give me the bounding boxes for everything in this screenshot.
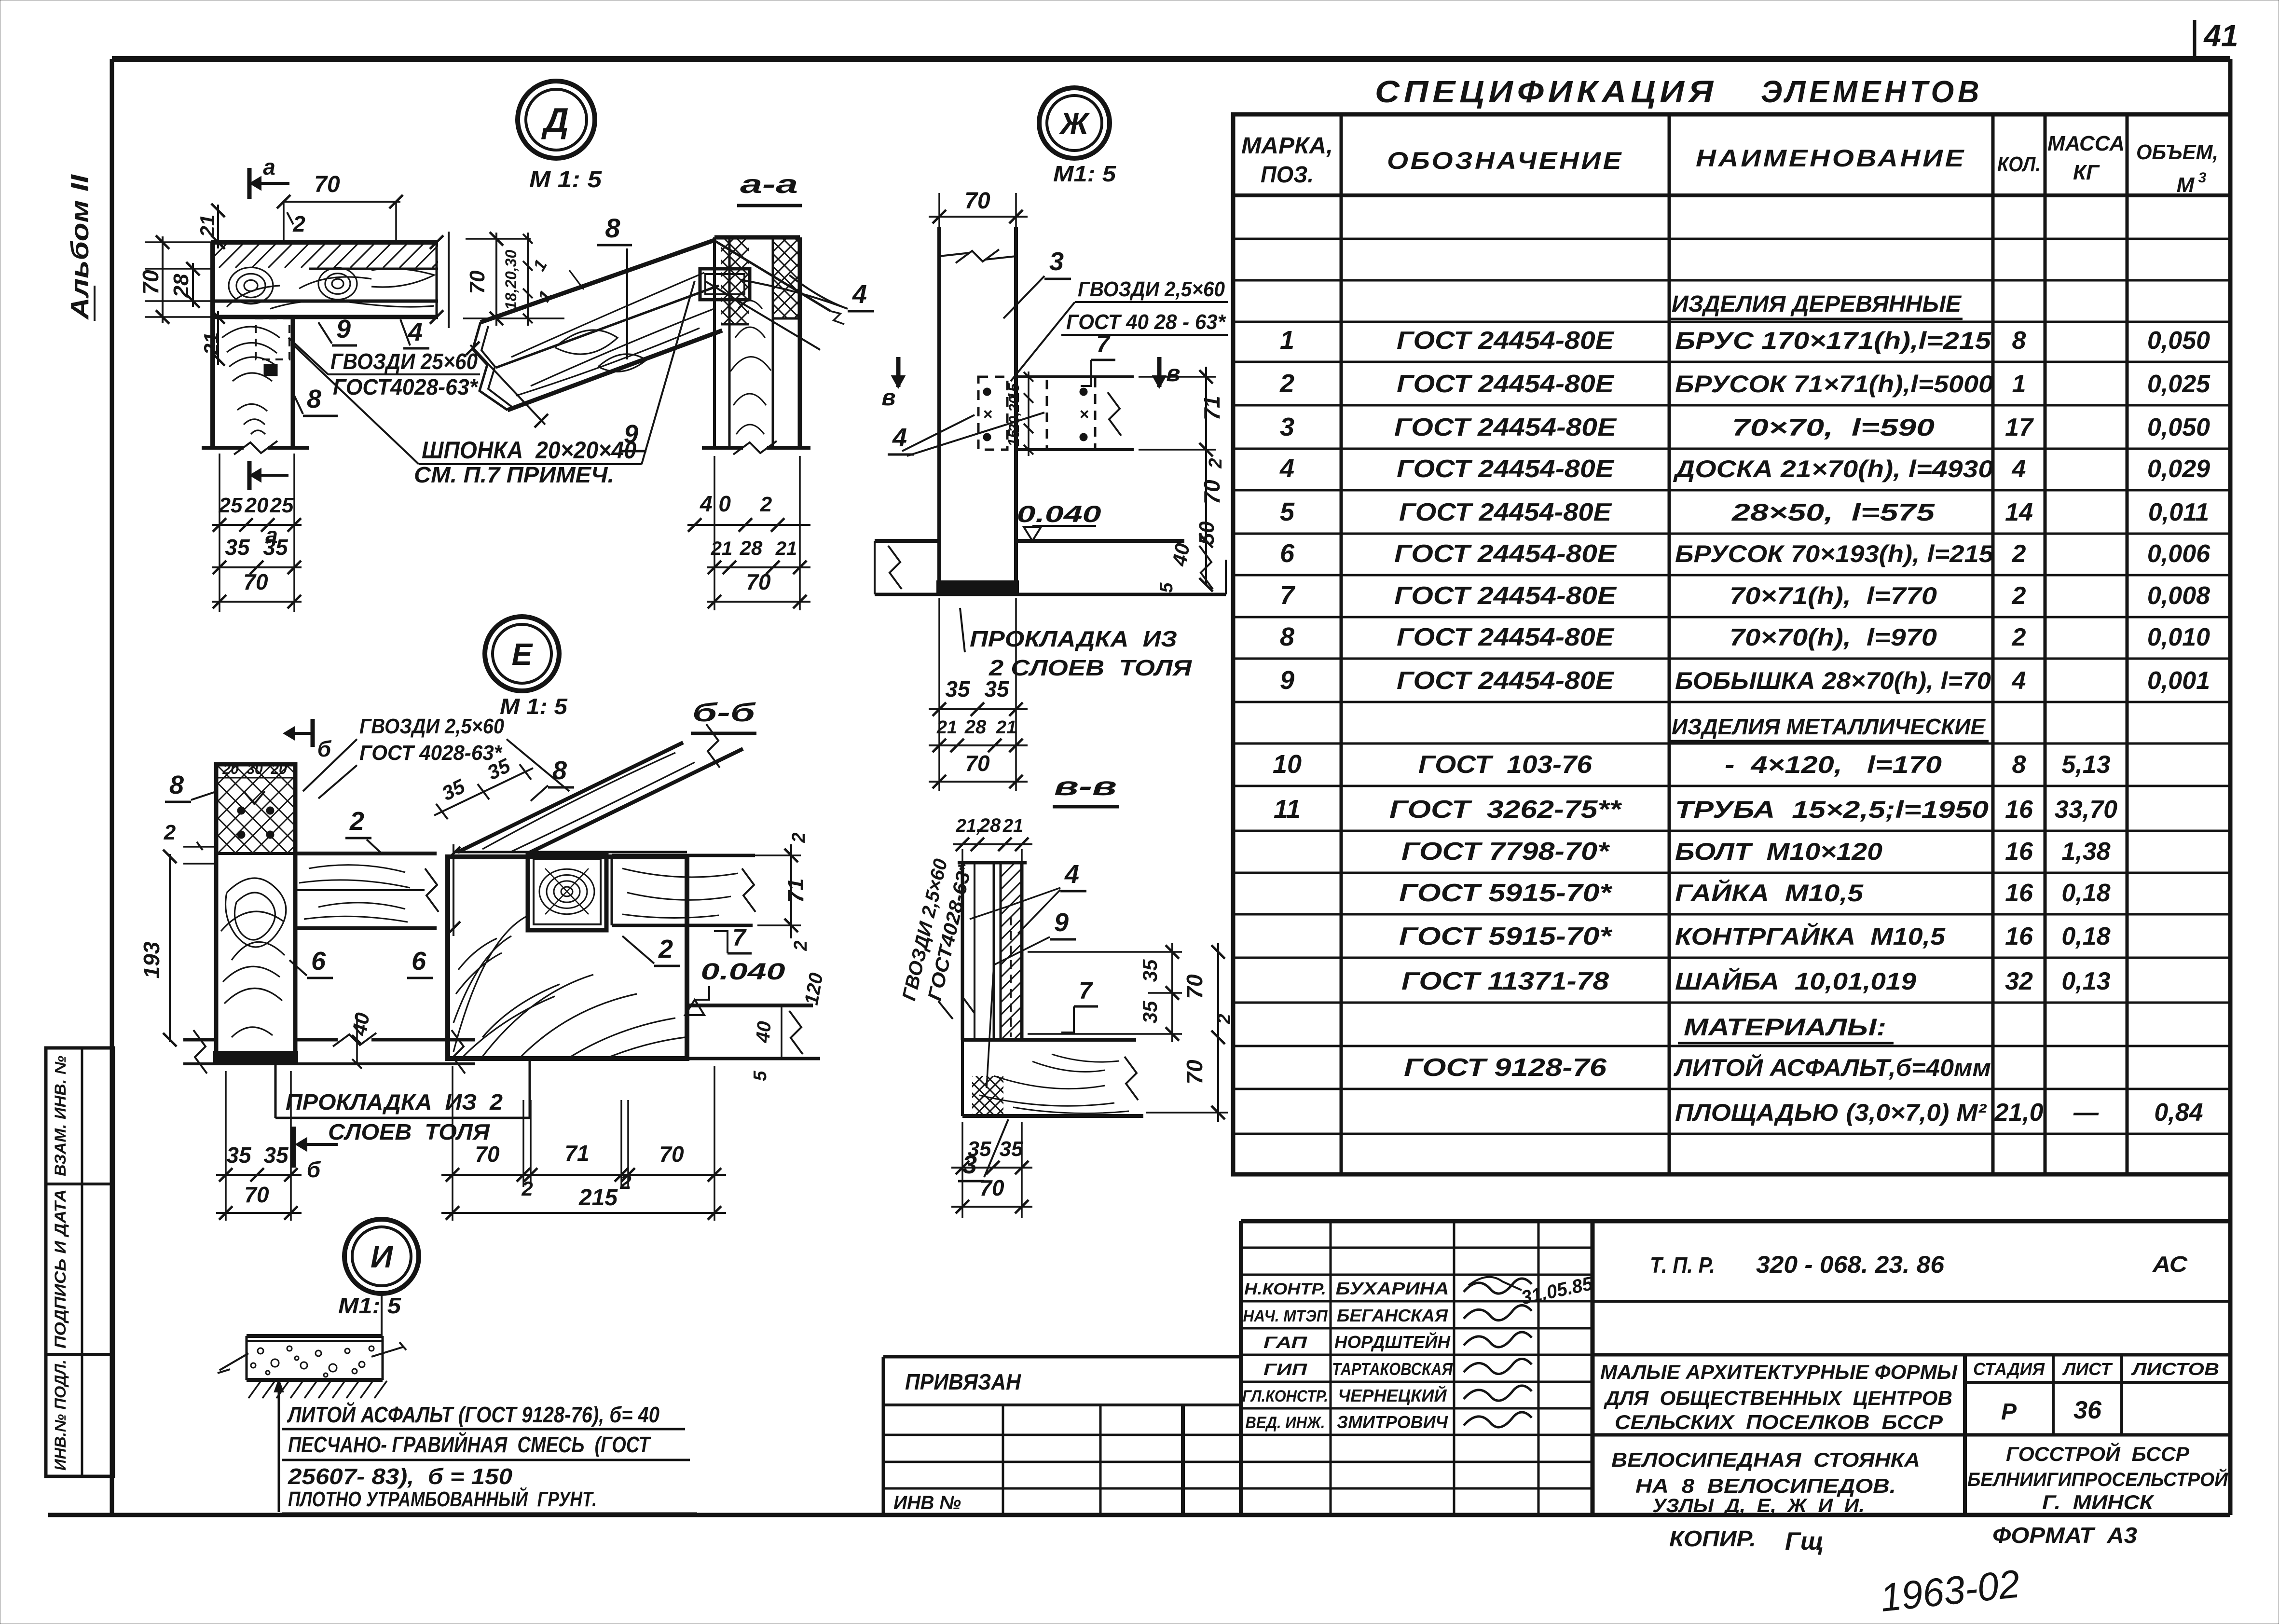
svg-text:БОБЫШКА 28×70(h), l=70: БОБЫШКА 28×70(h), l=70: [1675, 667, 1991, 694]
svg-text:71: 71: [564, 1141, 589, 1166]
svg-text:3: 3: [1049, 247, 1064, 276]
svg-text:0,050: 0,050: [2147, 327, 2210, 355]
svg-text:БРУСОК 71×71(h),l=5000: БРУСОК 71×71(h),l=5000: [1675, 371, 1993, 398]
svg-text:70×70(h), l=970: 70×70(h), l=970: [1730, 624, 1937, 651]
svg-text:14: 14: [2005, 498, 2033, 526]
svg-text:21: 21: [996, 717, 1016, 738]
svg-text:0,050: 0,050: [2147, 413, 2210, 441]
svg-text:2: 2: [521, 1177, 533, 1200]
svg-text:ГОСТ 103-76: ГОСТ 103-76: [1418, 751, 1593, 779]
svg-text:35: 35: [984, 676, 1010, 702]
svg-text:4: 4: [852, 280, 867, 309]
svg-text:ОБЪЕМ,: ОБЪЕМ,: [2136, 140, 2218, 164]
svg-text:70×71(h), l=770: 70×71(h), l=770: [1730, 582, 1937, 609]
svg-text:7: 7: [732, 924, 747, 951]
svg-text:71: 71: [1199, 396, 1224, 420]
svg-text:7: 7: [1096, 330, 1111, 358]
svg-text:0,006: 0,006: [2147, 540, 2210, 568]
svg-text:ГОСТ 40 28 - 63*: ГОСТ 40 28 - 63*: [1066, 310, 1226, 334]
svg-text:25607- 83), б = 150: 25607- 83), б = 150: [288, 1464, 513, 1489]
svg-text:2: 2: [1214, 1014, 1235, 1024]
svg-text:КГ: КГ: [2073, 161, 2100, 184]
svg-text:70: 70: [314, 172, 340, 197]
svg-text:М 1: 5: М 1: 5: [500, 694, 568, 719]
svg-text:ГОСТ 24454-80Е: ГОСТ 24454-80Е: [1397, 623, 1614, 651]
svg-text:ИНВ №: ИНВ №: [893, 1492, 961, 1514]
svg-text:70: 70: [1182, 1060, 1207, 1085]
svg-text:20: 20: [270, 761, 287, 777]
svg-text:0,84: 0,84: [2154, 1099, 2203, 1127]
svg-text:70: 70: [138, 270, 163, 295]
svg-text:28×50, l=575: 28×50, l=575: [1731, 499, 1936, 526]
svg-text:2 СЛОЕВ ТОЛЯ: 2 СЛОЕВ ТОЛЯ: [988, 655, 1193, 680]
svg-text:2: 2: [292, 211, 305, 236]
svg-text:25: 25: [219, 494, 243, 517]
svg-text:ГОСТ 4028-63*: ГОСТ 4028-63*: [359, 741, 503, 765]
svg-text:БЕЛНИИГИПРОСЕЛЬСТРОЙ: БЕЛНИИГИПРОСЕЛЬСТРОЙ: [1967, 1468, 2228, 1490]
svg-text:ГЛ.КОНСТР.: ГЛ.КОНСТР.: [1242, 1387, 1328, 1405]
svg-text:ЛИТОЙ АСФАЛЬТ,б=40мм: ЛИТОЙ АСФАЛЬТ,б=40мм: [1674, 1054, 1991, 1081]
svg-text:2: 2: [2012, 540, 2026, 568]
svg-text:МАТЕРИАЛЫ:: МАТЕРИАЛЫ:: [1684, 1014, 1886, 1041]
svg-text:0,13: 0,13: [2061, 967, 2110, 995]
svg-text:0,025: 0,025: [2147, 370, 2210, 398]
svg-text:4: 4: [2012, 455, 2026, 483]
svg-text:Гщ: Гщ: [1785, 1528, 1824, 1555]
svg-text:8: 8: [2012, 327, 2026, 355]
svg-text:35: 35: [968, 1137, 991, 1161]
svg-text:- 4×120, l=170: - 4×120, l=170: [1725, 751, 1942, 778]
svg-text:2: 2: [164, 821, 176, 844]
svg-text:7: 7: [1079, 977, 1093, 1004]
svg-text:МАССА: МАССА: [2047, 132, 2125, 155]
svg-text:28: 28: [979, 815, 1001, 836]
svg-text:71: 71: [783, 878, 808, 903]
svg-text:40: 40: [752, 1020, 775, 1044]
svg-text:КОЛ.: КОЛ.: [1997, 152, 2041, 176]
svg-text:4: 4: [1279, 454, 1294, 483]
svg-text:ПОЗ.: ПОЗ.: [1261, 162, 1314, 188]
svg-text:БРУС 170×171(h),l=215: БРУС 170×171(h),l=215: [1675, 327, 1991, 354]
svg-text:16: 16: [2005, 922, 2033, 950]
svg-text:41: 41: [2203, 18, 2238, 53]
svg-text:21: 21: [196, 215, 219, 238]
svg-text:СМ. П.7 ПРИМЕЧ.: СМ. П.7 ПРИМЕЧ.: [414, 462, 614, 487]
svg-text:ГОСТ 24454-80Е: ГОСТ 24454-80Е: [1394, 540, 1617, 568]
svg-text:70: 70: [964, 188, 990, 214]
svg-text:70: 70: [475, 1142, 500, 1167]
svg-text:21: 21: [936, 717, 957, 738]
svg-text:1: 1: [1280, 326, 1294, 355]
svg-text:35: 35: [226, 1142, 252, 1168]
svg-text:ОБОЗНАЧЕНИЕ: ОБОЗНАЧЕНИЕ: [1387, 147, 1623, 174]
svg-text:ЛИСТ: ЛИСТ: [2062, 1359, 2113, 1379]
svg-text:М 1: 5: М 1: 5: [529, 167, 602, 193]
svg-text:БУХАРИНА: БУХАРИНА: [1336, 1279, 1449, 1298]
svg-text:8: 8: [552, 756, 567, 785]
svg-text:8: 8: [2012, 751, 2026, 779]
svg-text:Н.КОНТР.: Н.КОНТР.: [1244, 1280, 1326, 1298]
svg-text:4: 4: [892, 423, 907, 452]
svg-text:70: 70: [965, 751, 990, 776]
svg-text:35: 35: [225, 535, 250, 560]
svg-text:193: 193: [139, 941, 164, 978]
svg-text:ПРОКЛАДКА ИЗ 2: ПРОКЛАДКА ИЗ 2: [286, 1089, 503, 1115]
svg-text:3: 3: [2198, 170, 2207, 186]
svg-text:ГОСТ 24454-80Е: ГОСТ 24454-80Е: [1397, 327, 1614, 355]
svg-text:70: 70: [746, 569, 771, 594]
svg-text:—: —: [2073, 1099, 2099, 1127]
svg-text:70: 70: [659, 1142, 684, 1167]
svg-text:ГВОЗДИ 25×60: ГВОЗДИ 25×60: [330, 349, 478, 374]
svg-text:35: 35: [945, 676, 971, 702]
svg-text:4: 4: [408, 317, 423, 346]
svg-text:5: 5: [1156, 582, 1177, 593]
svg-text:0.040: 0.040: [1017, 502, 1101, 527]
svg-text:НАЧ. МТЭП: НАЧ. МТЭП: [1243, 1307, 1328, 1325]
svg-text:10: 10: [1273, 750, 1302, 779]
svg-text:2: 2: [349, 807, 364, 836]
svg-text:ГОСТ 3262-75**: ГОСТ 3262-75**: [1389, 796, 1622, 824]
svg-text:21: 21: [711, 538, 733, 559]
svg-text:35: 35: [263, 1142, 289, 1168]
svg-text:4: 4: [1064, 860, 1079, 889]
svg-text:ЛИТОЙ АСФАЛЬТ (ГОСТ 9128-76),: ЛИТОЙ АСФАЛЬТ (ГОСТ 9128-76), б= 40: [287, 1402, 659, 1427]
svg-text:Г. МИНСК: Г. МИНСК: [2042, 1491, 2155, 1514]
svg-text:7: 7: [1280, 581, 1296, 610]
svg-text:ПЕСЧАНО- ГРАВИЙНАЯ СМЕСЬ (ГО: ПЕСЧАНО- ГРАВИЙНАЯ СМЕСЬ (ГОСТ: [288, 1432, 651, 1457]
svg-text:8: 8: [1280, 622, 1294, 651]
svg-text:35: 35: [1139, 959, 1161, 982]
svg-text:ЧЕРНЕЦКИЙ: ЧЕРНЕЦКИЙ: [1338, 1385, 1447, 1405]
svg-text:18,20,30: 18,20,30: [502, 250, 520, 310]
svg-text:2: 2: [1279, 369, 1294, 398]
svg-text:2: 2: [619, 1170, 631, 1193]
svg-text:ГВОЗДИ 2,5×60: ГВОЗДИ 2,5×60: [359, 715, 504, 738]
svg-text:33,70: 33,70: [2055, 796, 2117, 824]
svg-text:70: 70: [244, 1182, 269, 1207]
svg-text:ГИП: ГИП: [1263, 1361, 1308, 1379]
svg-text:МАРКА,: МАРКА,: [1241, 133, 1333, 159]
svg-text:21,0: 21,0: [1994, 1099, 2043, 1127]
svg-text:4: 4: [2012, 667, 2026, 695]
svg-text:ИНВ.№ ПОДЛ.: ИНВ.№ ПОДЛ.: [52, 1360, 69, 1471]
svg-text:ПЛОТНО УТРАМБОВАННЫЙ ГРУНТ.: ПЛОТНО УТРАМБОВАННЫЙ ГРУНТ.: [288, 1486, 597, 1511]
svg-text:ГОСТ 9128-76: ГОСТ 9128-76: [1404, 1054, 1607, 1082]
svg-text:б: б: [307, 1157, 321, 1182]
svg-text:ФОРМАТ А3: ФОРМАТ А3: [1992, 1523, 2137, 1548]
svg-text:28: 28: [169, 274, 193, 298]
svg-text:ВЕЛОСИПЕДНАЯ СТОЯНКА: ВЕЛОСИПЕДНАЯ СТОЯНКА: [1611, 1448, 1920, 1471]
svg-text:СТАДИЯ: СТАДИЯ: [1973, 1359, 2045, 1379]
svg-text:21: 21: [1002, 816, 1023, 836]
svg-text:215: 215: [578, 1185, 618, 1211]
svg-text:в: в: [1167, 361, 1181, 386]
svg-text:2: 2: [760, 493, 772, 516]
svg-text:ГОСТ 5915-70*: ГОСТ 5915-70*: [1399, 922, 1613, 950]
svg-text:0,001: 0,001: [2147, 667, 2210, 695]
svg-text:70: 70: [243, 569, 268, 594]
svg-text:ГОСТ 11371-78: ГОСТ 11371-78: [1401, 967, 1609, 995]
svg-text:Р: Р: [2001, 1399, 2017, 1425]
svg-text:а-а: а-а: [740, 170, 798, 199]
svg-text:28: 28: [740, 537, 763, 559]
svg-text:СЕЛЬСКИХ ПОСЕЛКОВ БССР: СЕЛЬСКИХ ПОСЕЛКОВ БССР: [1615, 1411, 1943, 1433]
svg-text:16: 16: [2005, 838, 2033, 866]
svg-text:21: 21: [200, 332, 222, 356]
svg-text:ГВОЗДИ 2,5×60: ГВОЗДИ 2,5×60: [1078, 277, 1225, 301]
svg-text:5: 5: [1280, 497, 1295, 526]
svg-text:ГОСТ 24454-80Е: ГОСТ 24454-80Е: [1394, 582, 1617, 610]
svg-text:4 0: 4 0: [700, 491, 731, 516]
svg-text:20: 20: [222, 761, 239, 777]
svg-text:20,20: 20,20: [1006, 396, 1022, 432]
svg-text:а: а: [263, 154, 275, 179]
svg-text:ПРОКЛАДКА ИЗ: ПРОКЛАДКА ИЗ: [970, 626, 1177, 651]
svg-text:Ж: Ж: [1058, 106, 1090, 141]
svg-text:ШПОНКА 20×20×40: ШПОНКА 20×20×40: [422, 437, 636, 464]
svg-text:Альбом II: Альбом II: [66, 174, 94, 320]
svg-text:СЛОЕВ ТОЛЯ: СЛОЕВ ТОЛЯ: [328, 1119, 491, 1144]
svg-text:М: М: [2177, 173, 2195, 197]
svg-text:16: 16: [2005, 796, 2033, 824]
svg-text:6: 6: [412, 947, 426, 976]
svg-text:320 - 068. 23. 86: 320 - 068. 23. 86: [1756, 1251, 1945, 1278]
svg-text:1: 1: [2012, 370, 2026, 398]
svg-text:×: ×: [1079, 405, 1089, 424]
svg-text:1,38: 1,38: [2061, 838, 2110, 866]
svg-text:ПРИВЯЗАН: ПРИВЯЗАН: [905, 1369, 1021, 1394]
svg-text:б: б: [317, 736, 332, 761]
svg-text:35: 35: [263, 535, 288, 560]
svg-text:2: 2: [658, 935, 673, 963]
svg-text:0,008: 0,008: [2147, 582, 2210, 610]
svg-text:ГОСТ 24454-80Е: ГОСТ 24454-80Е: [1397, 455, 1614, 483]
svg-text:ГОССТРОЙ БССР: ГОССТРОЙ БССР: [2006, 1442, 2190, 1465]
svg-text:6: 6: [1280, 539, 1295, 568]
svg-text:2: 2: [2012, 582, 2026, 610]
svg-text:ИЗДЕЛИЯ МЕТАЛЛИЧЕСКИЕ: ИЗДЕЛИЯ МЕТАЛЛИЧЕСКИЕ: [1672, 714, 1986, 739]
svg-text:БЕГАНСКАЯ: БЕГАНСКАЯ: [1337, 1306, 1448, 1325]
svg-text:НОРДШТЕЙН: НОРДШТЕЙН: [1334, 1332, 1451, 1352]
svg-text:МАЛЫЕ АРХИТЕКТУРНЫЕ ФОРМЫ: МАЛЫЕ АРХИТЕКТУРНЫЕ ФОРМЫ: [1600, 1361, 1958, 1383]
svg-text:8: 8: [169, 771, 184, 799]
svg-text:Т. П. Р.: Т. П. Р.: [1650, 1252, 1715, 1278]
svg-text:2: 2: [791, 940, 811, 951]
svg-text:Е: Е: [512, 637, 534, 672]
svg-text:8: 8: [307, 385, 321, 413]
svg-text:ЛИСТОВ: ЛИСТОВ: [2130, 1359, 2219, 1379]
svg-text:70×70, l=590: 70×70, l=590: [1732, 414, 1935, 441]
svg-text:70: 70: [1182, 974, 1207, 999]
svg-text:50: 50: [1195, 521, 1219, 545]
svg-text:ГАЙКА М10,5: ГАЙКА М10,5: [1675, 879, 1864, 907]
svg-text:9: 9: [1280, 666, 1294, 695]
svg-text:9: 9: [1054, 908, 1069, 937]
svg-text:35: 35: [1139, 1001, 1161, 1023]
svg-text:70: 70: [466, 270, 489, 294]
svg-text:в: в: [882, 385, 896, 411]
svg-text:0,011: 0,011: [2148, 498, 2209, 526]
svg-text:17: 17: [2005, 413, 2034, 441]
svg-text:21,: 21,: [956, 816, 982, 836]
svg-text:ГОСТ 24454-80Е: ГОСТ 24454-80Е: [1397, 370, 1614, 398]
svg-text:ПЛОЩАДЬЮ (3,0×7,0) М²: ПЛОЩАДЬЮ (3,0×7,0) М²: [1675, 1099, 1987, 1126]
svg-text:М1: 5: М1: 5: [338, 1293, 402, 1318]
svg-text:ТАРТАКОВСКАЯ: ТАРТАКОВСКАЯ: [1332, 1359, 1453, 1379]
svg-text:БОЛТ М10×120: БОЛТ М10×120: [1675, 838, 1882, 865]
svg-text:ГОСТ 24454-80Е: ГОСТ 24454-80Е: [1399, 498, 1612, 526]
svg-text:35: 35: [1000, 1137, 1023, 1161]
svg-text:ГОСТ 24454-80Е: ГОСТ 24454-80Е: [1397, 667, 1614, 695]
svg-text:ШАЙБА 10,01,019: ШАЙБА 10,01,019: [1675, 967, 1916, 995]
svg-text:16: 16: [2005, 879, 2033, 907]
svg-text:8: 8: [605, 213, 620, 243]
svg-text:2: 2: [2012, 623, 2026, 651]
svg-text:20: 20: [245, 494, 269, 517]
svg-text:70: 70: [979, 1175, 1004, 1200]
svg-text:28: 28: [964, 716, 987, 738]
svg-text:АС: АС: [2152, 1252, 2188, 1277]
svg-text:30: 30: [247, 761, 263, 777]
svg-text:СПЕЦИФИКАЦИЯ: СПЕЦИФИКАЦИЯ: [1375, 74, 1717, 109]
svg-text:0.040: 0.040: [701, 959, 785, 985]
svg-text:32: 32: [2005, 967, 2033, 995]
svg-text:70: 70: [1199, 480, 1224, 505]
svg-text:25: 25: [270, 494, 294, 517]
svg-text:36: 36: [2073, 1396, 2102, 1424]
svg-text:6: 6: [311, 947, 326, 976]
svg-text:ПОДПИСЬ И ДАТА: ПОДПИСЬ И ДАТА: [52, 1189, 69, 1349]
svg-text:0,18: 0,18: [2061, 879, 2110, 907]
svg-text:ГОСТ 5915-70*: ГОСТ 5915-70*: [1399, 879, 1613, 907]
svg-text:ДЛЯ ОБЩЕСТВЕННЫХ ЦЕНТРОВ: ДЛЯ ОБЩЕСТВЕННЫХ ЦЕНТРОВ: [1604, 1387, 1952, 1409]
svg-text:ГОСТ 24454-80Е: ГОСТ 24454-80Е: [1394, 413, 1617, 441]
svg-text:2: 2: [1206, 458, 1226, 468]
svg-text:ТРУБА 15×2,5;l=1950: ТРУБА 15×2,5;l=1950: [1675, 796, 1989, 823]
svg-text:ВЕД. ИНЖ.: ВЕД. ИНЖ.: [1246, 1414, 1325, 1432]
svg-text:ИЗДЕЛИЯ ДЕРЕВЯННЫЕ: ИЗДЕЛИЯ ДЕРЕВЯННЫЕ: [1672, 291, 1962, 317]
svg-text:НА 8 ВЕЛОСИПЕДОВ.: НА 8 ВЕЛОСИПЕДОВ.: [1635, 1474, 1896, 1497]
svg-text:НАИМЕНОВАНИЕ: НАИМЕНОВАНИЕ: [1696, 145, 1966, 172]
svg-text:БРУСОК 70×193(h), l=215: БРУСОК 70×193(h), l=215: [1675, 540, 1994, 567]
svg-text:11: 11: [1274, 795, 1301, 824]
svg-text:40: 40: [347, 1011, 374, 1037]
svg-text:0,010: 0,010: [2147, 623, 2210, 651]
svg-text:Д: Д: [541, 101, 569, 140]
svg-text:0,029: 0,029: [2147, 455, 2210, 483]
svg-text:3: 3: [1280, 413, 1294, 441]
svg-text:в-в: в-в: [1054, 772, 1117, 801]
svg-text:15: 15: [1005, 429, 1022, 447]
svg-text:КОНТРГАЙКА М10,5: КОНТРГАЙКА М10,5: [1675, 922, 1946, 950]
svg-text:УЗЛЫ Д, Е, Ж И И.: УЗЛЫ Д, Е, Ж И И.: [1652, 1495, 1865, 1516]
svg-text:×: ×: [983, 405, 992, 424]
svg-text:ГОСТ 7798-70*: ГОСТ 7798-70*: [1401, 838, 1610, 866]
svg-text:М1: 5: М1: 5: [1053, 161, 1117, 186]
svg-text:9: 9: [624, 420, 638, 449]
svg-text:5: 5: [750, 1071, 770, 1081]
svg-text:ВЗАМ. ИНВ. №: ВЗАМ. ИНВ. №: [52, 1056, 69, 1176]
svg-text:б-б: б-б: [692, 698, 756, 727]
svg-text:ДОСКА 21×70(h), l=4930: ДОСКА 21×70(h), l=4930: [1673, 455, 1993, 482]
svg-text:5,13: 5,13: [2061, 751, 2110, 779]
svg-text:40: 40: [1167, 541, 1194, 568]
svg-text:21: 21: [775, 538, 797, 559]
svg-text:ГОСТ4028-63*: ГОСТ4028-63*: [333, 374, 479, 399]
svg-text:ЗМИТРОВИЧ: ЗМИТРОВИЧ: [1337, 1412, 1448, 1432]
svg-text:И: И: [371, 1239, 394, 1274]
svg-text:ЭЛЕМЕНТОВ: ЭЛЕМЕНТОВ: [1761, 74, 1983, 109]
svg-text:КОПИР.: КОПИР.: [1669, 1526, 1756, 1551]
svg-text:9: 9: [336, 315, 351, 344]
svg-text:2: 2: [789, 832, 809, 843]
svg-text:0,18: 0,18: [2061, 922, 2110, 950]
svg-text:ГАП: ГАП: [1263, 1334, 1308, 1352]
